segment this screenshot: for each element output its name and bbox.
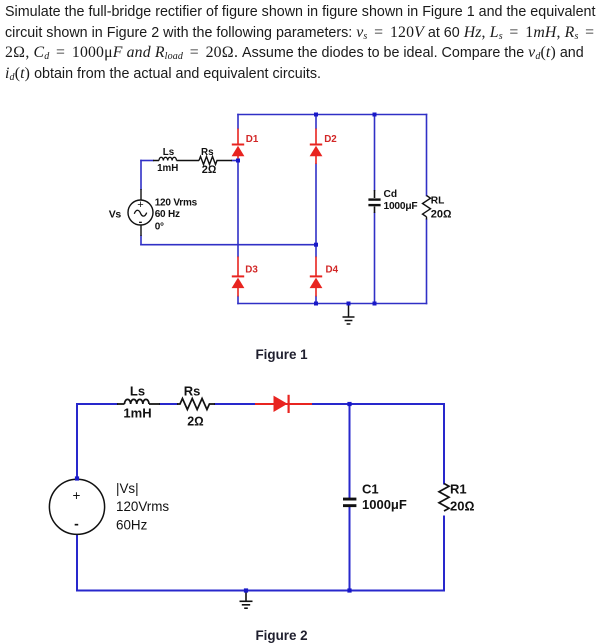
ground fig2 <box>240 591 253 609</box>
source Vs lead top <box>140 189 142 200</box>
svg-text:1000μF: 1000μF <box>362 497 407 512</box>
svg-text:|Vs|: |Vs| <box>116 481 139 496</box>
wire right vertical upper (to RL) <box>426 115 428 196</box>
problem statement text line 4 <box>5 65 321 83</box>
wire fig2 right vertical upper <box>443 404 445 484</box>
svg-text:60Hz: 60Hz <box>116 517 148 532</box>
resistor R1 (20 ohm) zigzag fig2 <box>439 484 449 512</box>
wire fig2 top rail left segment <box>77 403 117 405</box>
diode D4 <box>310 257 323 297</box>
resistor RL (20 ohm) zigzag <box>423 196 431 220</box>
inductor Ls fig2 (1mH) <box>117 399 160 404</box>
wire D4 branch bottom <box>315 297 317 304</box>
svg-text:D3: D3 <box>245 265 258 276</box>
svg-text:D2: D2 <box>324 134 337 145</box>
wire Cd branch lower <box>374 213 376 304</box>
node dot D4 bottom <box>314 302 318 306</box>
resistor Rs (2 ohm) zigzag <box>199 157 232 165</box>
wire fig2 C1 branch lower <box>349 508 351 591</box>
svg-text:RL: RL <box>431 196 445 207</box>
capacitor C1 fig2 <box>343 498 356 508</box>
svg-text:D1: D1 <box>246 134 259 145</box>
svg-text:-: - <box>74 515 79 531</box>
node dot source-D2 junction <box>314 243 318 247</box>
node dot Cd bottom <box>373 302 377 306</box>
resistor Rs fig2 (2 ohm) zigzag <box>177 399 215 410</box>
svg-text:+: + <box>72 488 80 503</box>
wire D2-D4 middle vertical <box>315 164 317 257</box>
svg-text:Cd: Cd <box>384 189 398 200</box>
wire D1-D3 middle vertical <box>237 161 239 257</box>
wire D3 branch bottom <box>237 297 239 304</box>
wire fig2 left vertical lower <box>76 535 78 591</box>
node dot D2 top <box>314 113 318 117</box>
svg-text:D4: D4 <box>326 265 339 276</box>
node dot fig2 C1 top <box>347 402 351 406</box>
node dot fig2 C1 bottom <box>347 588 351 592</box>
svg-text:Rs: Rs <box>201 147 214 158</box>
svg-text:1mH: 1mH <box>123 406 151 421</box>
wire fig2 bottom rail <box>77 590 444 592</box>
diode D2 <box>310 129 323 165</box>
svg-text:1mH: 1mH <box>157 163 178 174</box>
svg-text:20Ω: 20Ω <box>431 209 452 221</box>
svg-text:2Ω: 2Ω <box>187 415 204 429</box>
problem statement text line 2 <box>5 24 597 42</box>
node dot ground fig1 <box>347 302 351 306</box>
wire Cd branch upper <box>374 115 376 191</box>
wire bottom rail <box>238 303 427 305</box>
diode D1 <box>232 129 245 162</box>
svg-text:+: + <box>137 199 143 211</box>
problem statement text line 1 <box>5 4 595 20</box>
svg-text:C1: C1 <box>362 482 379 497</box>
svg-text:0°: 0° <box>155 221 164 232</box>
wire right vertical lower (from RL) <box>426 220 428 304</box>
wire fig2 after Rs to diode <box>215 403 256 405</box>
svg-text:-: - <box>139 216 143 228</box>
node dot fig2 ground <box>244 588 248 592</box>
problem statement text line 3 <box>5 44 584 62</box>
svg-text:60 Hz: 60 Hz <box>155 209 180 220</box>
diode D3 <box>232 257 245 297</box>
ground fig1 <box>343 304 355 325</box>
svg-text:Rs: Rs <box>184 384 201 399</box>
capacitor Cd <box>368 190 380 213</box>
wire fig2 left vertical upper <box>76 404 78 480</box>
wire fig2 between Ls and Rs <box>160 403 177 405</box>
svg-text:R1: R1 <box>450 482 467 497</box>
source Vs lead bottom <box>140 225 142 236</box>
svg-text:120 Vrms: 120 Vrms <box>155 198 198 209</box>
caption Figure 2 (clipped at page bottom) <box>256 628 308 643</box>
diode fig2 (ideal) <box>274 395 289 413</box>
wire between Rs and D1 junction <box>232 160 238 162</box>
svg-text:Ls: Ls <box>163 147 175 158</box>
wire top rail node D1-D2-Cd-RL <box>238 114 427 116</box>
wire fig2 after diode to C1 node and R1 <box>313 403 444 405</box>
wire source top horizontal to bridge <box>141 160 153 162</box>
wire fig2 C1 branch upper <box>349 404 351 497</box>
wire source left vertical lower <box>140 236 142 245</box>
svg-text:1000μF: 1000μF <box>384 201 418 212</box>
source Vs circle <box>128 199 153 228</box>
wire source left vertical upper <box>140 161 142 190</box>
svg-text:Ls: Ls <box>130 384 145 399</box>
svg-text:120Vrms: 120Vrms <box>116 499 169 514</box>
wire fig2 right vertical lower <box>443 517 445 591</box>
node dot Cd top <box>373 113 377 117</box>
svg-text:2Ω: 2Ω <box>202 164 217 176</box>
wire D1 branch top <box>237 115 239 129</box>
wire source bottom to D2-D4 node <box>141 244 316 246</box>
source |Vs| circle fig2 <box>49 479 104 534</box>
svg-text:Vs: Vs <box>109 208 122 220</box>
wire fig2 diode red segment <box>256 403 313 405</box>
svg-text:20Ω: 20Ω <box>450 499 474 514</box>
node dot Rs-D1 junction <box>236 159 240 163</box>
node dot fig2 source top <box>75 476 79 480</box>
inductor Ls (1mH) <box>153 157 199 160</box>
caption Figure 1 <box>256 347 308 362</box>
wire D2 branch top <box>315 115 317 129</box>
